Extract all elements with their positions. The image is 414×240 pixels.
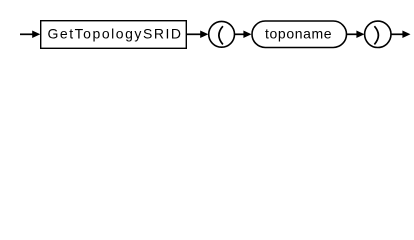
box GetTopologySRID: [41, 21, 187, 49]
svg-text:toponame: toponame: [265, 26, 332, 42]
wire entry line: [20, 33, 34, 35]
stadium toponame: [252, 21, 347, 48]
arrowhead into ): [356, 31, 364, 39]
wire toponame to ): [347, 33, 358, 35]
svg-text:GetTopologySRID: GetTopologySRID: [48, 26, 182, 42]
arrowhead exit: [402, 31, 410, 39]
wire ( to toponame: [235, 33, 245, 35]
circle (: [209, 21, 235, 47]
wire exit line: [391, 33, 404, 35]
arrowhead into (: [200, 31, 208, 39]
label ): [374, 26, 378, 44]
wire box to (: [187, 33, 202, 35]
label (: [219, 26, 223, 44]
arrowhead into box: [32, 31, 40, 39]
arrowhead into toponame: [243, 31, 251, 39]
circle ): [365, 21, 391, 47]
